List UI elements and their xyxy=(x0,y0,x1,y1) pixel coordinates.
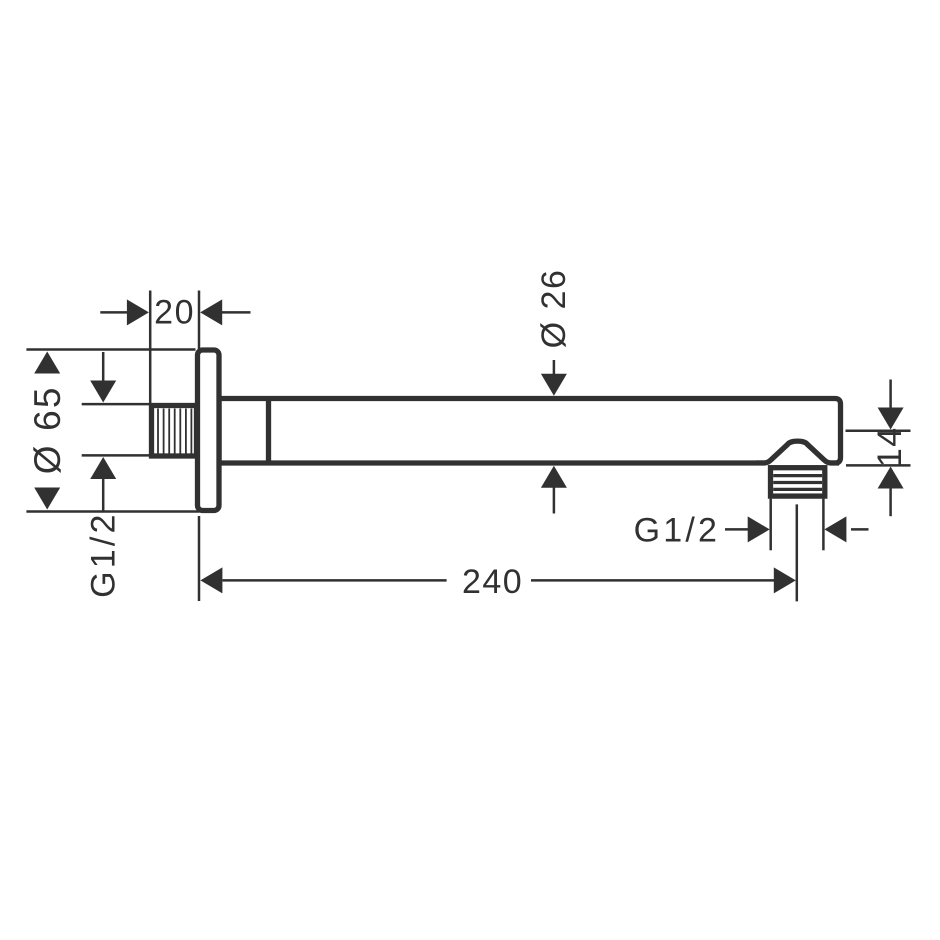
svg-text:G1/2: G1/2 xyxy=(84,511,122,598)
svg-text:Ø 26: Ø 26 xyxy=(535,269,573,349)
svg-text:20: 20 xyxy=(154,294,195,332)
svg-text:240: 240 xyxy=(462,563,523,601)
svg-text:G1/2: G1/2 xyxy=(634,512,721,550)
svg-text:14: 14 xyxy=(871,426,909,467)
svg-text:Ø 65: Ø 65 xyxy=(27,385,68,474)
